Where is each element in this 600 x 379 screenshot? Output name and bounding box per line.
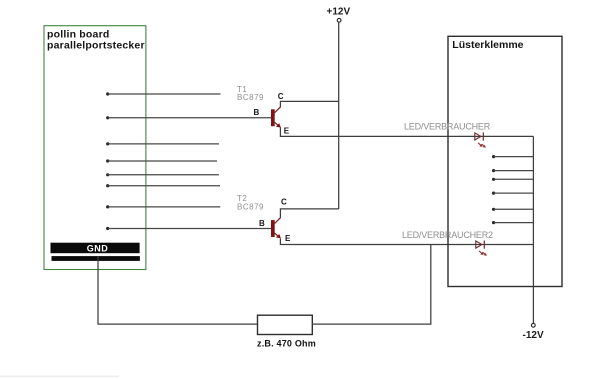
wire T2 emitter net to bus [280,239,533,245]
svg-text:E: E [285,234,291,243]
klemme pin 1 [492,155,495,158]
transistor T1 BC879 [271,107,281,128]
wire row2 to T1 base [106,116,109,119]
Luesterklemme box [448,36,562,286]
svg-text:B: B [259,219,265,228]
svg-text:pollin board: pollin board [47,28,109,40]
svg-text:B: B [254,108,260,117]
svg-text:C: C [278,92,284,101]
klemme pin 5 [492,208,495,211]
svg-text:z.B. 470 Ohm: z.B. 470 Ohm [257,339,316,349]
GND bar underline [52,256,140,261]
pin wire row4 [106,159,109,162]
wire T2 collector to +12V rail [280,209,338,218]
pin wire row5 [106,173,109,176]
-12V supply terminal [531,323,535,327]
wire resistor to T2 emitter net [312,245,431,325]
pin wire row7 [106,205,109,208]
LED D2 [476,241,487,256]
svg-text:LED/VERBRAUCHER: LED/VERBRAUCHER [404,122,491,132]
+12V supply terminal [337,18,341,22]
bottom edge artifact [0,376,119,378]
GND wire to resistor [98,256,258,324]
klemme pin 4 [492,192,495,195]
svg-text:C: C [281,198,287,207]
wire row8 to T2 base [106,227,109,230]
svg-text:BC879: BC879 [237,202,264,211]
svg-text:BC879: BC879 [237,93,264,102]
pin wire row3 [106,142,109,145]
svg-text:LED/VERBRAUCHER2: LED/VERBRAUCHER2 [402,230,493,240]
svg-text:Lüsterklemme: Lüsterklemme [452,39,523,51]
klemme pin 3 [492,178,495,181]
wire T1 collector to +12V rail [280,101,338,107]
pin wire row1 [106,92,109,95]
bus wire to -12V [532,136,534,323]
svg-text:+12V: +12V [327,7,351,18]
klemme pin 2 [492,169,495,172]
wire T1 emitter net to bus [280,128,533,137]
pollin board parallelportstecker box [44,26,146,270]
svg-text:parallelportstecker: parallelportstecker [47,40,145,52]
transistor T2 BC879 [271,218,281,239]
svg-text:E: E [284,126,290,135]
svg-text:GND: GND [87,243,109,253]
klemme pin 6 [492,221,495,224]
LED D1 [475,132,486,147]
pin wire row6 [106,184,109,187]
resistor R1 z.B. 470 Ohm [258,315,313,334]
GND bar [51,243,140,254]
svg-text:-12V: -12V [523,330,544,341]
+12V rail wire [338,22,340,209]
